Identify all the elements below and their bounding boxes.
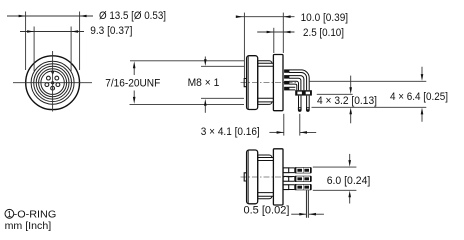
svg-text:0.5 [0.02]: 0.5 [0.02]	[244, 205, 290, 217]
legend o-ring circled 1	[5, 209, 14, 218]
dimension 10.0 left arrow	[236, 15, 243, 18]
side view front lip	[244, 79, 246, 87]
dimension 0.5 left arrow	[299, 213, 306, 216]
pin wire stub lines to spacer	[289, 87, 295, 90]
bottom view coupling nut inner edge line	[247, 150, 249, 203]
dimension Ø13.5 extension line right	[79, 12, 81, 71]
dimension M8x1 bottom extension line	[201, 97, 244, 99]
svg-text:Ø 13.5 [Ø 0.53]: Ø 13.5 [Ø 0.53]	[99, 10, 166, 22]
dimension 9.3 left arrow	[27, 30, 34, 33]
svg-text:mm [Inch]: mm [Inch]	[5, 221, 52, 232]
pin tab 3	[285, 81, 290, 84]
pin 2 below spacer	[307, 96, 310, 108]
dimension Ø13.5 left arrow	[19, 15, 26, 18]
dimension 9.3 extension line right	[70, 27, 72, 72]
dimension 3x4.1 extension line right	[299, 114, 301, 136]
svg-text:-O-RING: -O-RING	[14, 209, 57, 220]
dimension 6.0 top extension line	[313, 166, 357, 168]
pin contact top-left	[47, 76, 51, 80]
dimension M8x1 lower arrow (outside)	[204, 106, 206, 113]
front view ring r13.5	[39, 69, 67, 97]
dimension 4x6.4 top reference line	[309, 80, 426, 82]
dimension 4x6.4 lower arrow	[421, 114, 423, 122]
side view coupling nut inner edge line	[247, 56, 249, 109]
pin contact top-right	[55, 76, 59, 80]
dimension 7/16-20UNF lower arrow	[133, 91, 135, 98]
dimension 4x3.2 overline	[317, 93, 353, 95]
bottom view pin block row2	[294, 176, 311, 182]
bottom view coupling nut	[247, 150, 258, 204]
dimension 4x6.4 bottom reference line	[312, 106, 427, 108]
dimension 4x6.4 upper arrow	[421, 67, 423, 75]
dimension 4x3.2 lower arrow	[350, 114, 352, 124]
dimension 2.5 extension line left	[273, 28, 275, 53]
pin wire arc 2	[289, 73, 307, 91]
pin wire arc 1	[289, 70, 309, 90]
dimension 7/16-20UNF bottom extension line	[130, 103, 245, 105]
dimension 0.5 right tail	[309, 213, 324, 215]
keyway notch	[51, 71, 54, 75]
front view ring r11.2	[41, 71, 64, 94]
pin 2 tip	[306, 107, 310, 112]
dimension 3x4.1 line left tail	[269, 131, 283, 133]
bottom view centerline	[241, 176, 295, 178]
pin wire arc 6	[289, 84, 297, 90]
bottom view pin tab row2	[283, 176, 289, 181]
dimension 2.5 line	[257, 31, 294, 33]
bottom view pin block row1	[294, 167, 311, 173]
bottom view body M8 thread lines	[258, 155, 274, 199]
bottom view body bottom edge with shoulder	[258, 196, 274, 199]
front view outer circle Ø13.5	[26, 56, 80, 110]
side view centerline	[241, 82, 297, 84]
svg-text:3 × 4.1 [0.16]: 3 × 4.1 [0.16]	[201, 126, 260, 138]
svg-text:4 × 3.2 [0.13]: 4 × 3.2 [0.13]	[317, 95, 377, 107]
front view crosshair vertical	[52, 51, 54, 112]
dimension 10.0 extension line left	[243, 13, 245, 78]
side view body bottom edge with shoulder	[258, 102, 274, 105]
svg-text:M8 × 1: M8 × 1	[188, 77, 220, 89]
side view coupling nut	[247, 56, 258, 110]
dimension 0.5 line left tail	[291, 213, 306, 215]
svg-text:10.0 [0.39]: 10.0 [0.39]	[301, 12, 349, 24]
pin spacer slot right	[306, 92, 310, 95]
pin 1 below spacer	[299, 96, 302, 108]
dimension 10.0 right arrow	[284, 15, 291, 18]
pin 2 tip hole	[307, 108, 308, 109]
dimension Ø13.5 extension line left	[25, 12, 27, 71]
pin tab 4	[285, 87, 290, 90]
dimension 7/16-20UNF top extension line	[130, 60, 244, 62]
pin tab 2	[285, 76, 290, 79]
svg-text:4 × 6.4 [0.25]: 4 × 6.4 [0.25]	[390, 91, 448, 103]
pin contact right	[56, 83, 60, 87]
dimension 2.5 left arrow	[267, 31, 274, 34]
center key diamond	[50, 81, 54, 85]
bottom view pin block row3	[294, 184, 311, 190]
svg-text:6.0 [0.24]: 6.0 [0.24]	[327, 175, 371, 187]
front view crosshair horizontal	[13, 82, 92, 84]
svg-text:9.3 [0.37]: 9.3 [0.37]	[90, 25, 132, 37]
pin 1 tip hole	[299, 108, 300, 109]
svg-text:2.5 [0.10]: 2.5 [0.10]	[303, 27, 344, 39]
dimension 9.3 line	[20, 31, 84, 33]
pin wire arc 3	[289, 76, 304, 91]
front view ring r16.0	[36, 66, 69, 99]
dimension M8x1 upper arrow (outside)	[204, 57, 206, 61]
dimension Ø13.5 right arrow	[80, 15, 87, 18]
front view ring r21.4	[31, 61, 74, 104]
dimension M8x1 top extension line	[201, 65, 244, 67]
svg-text:7/16-20UNF: 7/16-20UNF	[105, 77, 160, 89]
dimension 10.0 line	[236, 16, 295, 18]
bottom view pin tab row3	[283, 185, 289, 190]
bottom view front lip	[244, 173, 246, 181]
dimension 9.3 right arrow	[71, 30, 78, 33]
bottom view wire	[306, 190, 308, 218]
dimension 3x4.1 left arrow	[277, 131, 284, 134]
dimension 4x3.2 upper arrow	[350, 76, 352, 88]
pin wire arc 4	[289, 78, 301, 90]
side view body left/right edges	[257, 61, 259, 105]
dimension 2.5 right arrow	[284, 31, 291, 34]
pin tab 1	[285, 70, 290, 73]
pin contact bottom center dot	[52, 88, 53, 89]
pin spacer slot left	[297, 92, 302, 95]
bottom view pin tab row1	[283, 168, 289, 173]
pin contact bottom	[51, 86, 55, 90]
dimension 9.3 extension line left	[33, 27, 35, 72]
dimension 2.5 extension line right	[282, 13, 284, 53]
pin 1 tip	[298, 107, 302, 112]
dimension Ø13.5 line	[7, 15, 93, 17]
front view ring r18.6	[34, 64, 72, 102]
dimension 3x4.1 extension line left	[283, 114, 285, 136]
pin contact left	[45, 83, 49, 87]
bottom view flange	[273, 149, 283, 205]
dimension 6.0 upper arrow	[349, 154, 351, 161]
pin spacer bar	[295, 90, 312, 95]
pin wire arc 5	[289, 81, 299, 90]
bottom view body top edge with shoulder	[258, 155, 274, 158]
side view body top edge with shoulder	[258, 61, 274, 64]
svg-text:1: 1	[7, 209, 12, 219]
dimension 7/16-20UNF upper arrow	[133, 68, 135, 75]
dimension 6.0 bottom extension line	[313, 189, 357, 191]
dimension 3x4.1 right arrow	[300, 131, 307, 134]
side view flange	[273, 55, 283, 111]
dimension 3x4.1 line right tail	[300, 131, 316, 133]
dimension 0.5 right arrow	[309, 213, 316, 216]
side view body M8 thread lines	[258, 66, 274, 98]
dimension 6.0 lower arrow	[349, 197, 351, 204]
